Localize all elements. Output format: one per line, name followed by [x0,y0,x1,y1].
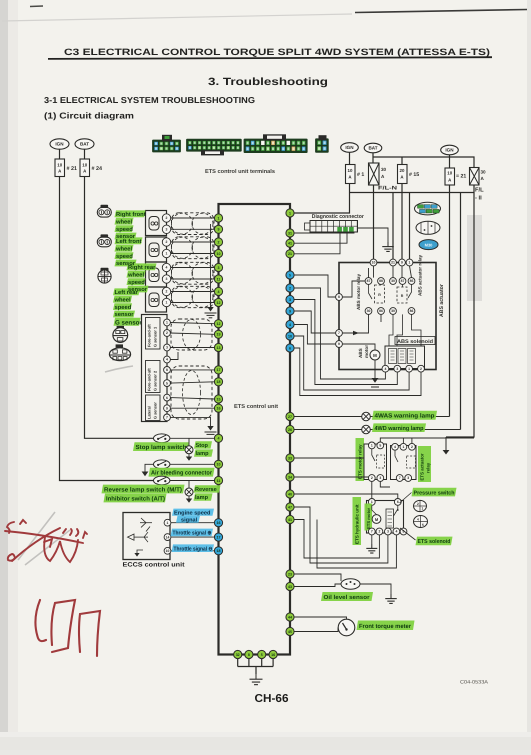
top scan line [355,10,527,13]
G sensor shield 1 [171,319,212,350]
svg-text:ETS control unit: ETS control unit [234,403,278,410]
ABS actuator box [339,263,436,370]
svg-text:11: 11 [217,277,221,281]
svg-text:3: 3 [166,228,168,232]
svg-text:21: 21 [391,261,395,265]
svg-text:20: 20 [400,168,405,173]
svg-text:10: 10 [217,252,221,256]
svg-text:2: 2 [411,445,413,449]
G sensor connector icon 2 [116,344,123,347]
G sensor shield 2 [171,366,212,419]
svg-text:lamp: lamp [196,450,210,457]
svg-text:3. Troubleshooting: 3. Troubleshooting [208,76,328,88]
pressure switch leader [400,493,412,504]
svg-text:9: 9 [338,342,340,346]
wire fuse #24 down to stop lamp switch [85,177,154,439]
svg-text:88: 88 [379,279,383,283]
svg-text:# 15: # 15 [409,172,419,178]
ECCS control unit box [123,513,170,560]
wire: F/L-N down to ABS relay pin [373,185,375,263]
left terminal 16 engine speed (blue) [214,519,222,527]
svg-text:3: 3 [379,476,381,480]
svg-text:R: R [401,294,404,298]
ETS control unit connector strip 3 [244,139,308,153]
svg-text:wheel: wheel [127,271,144,278]
svg-text:10: 10 [372,261,376,265]
ETS solenoid leader [400,528,416,540]
svg-text:C3 ELECTRICAL CONTROL TORQUE S: C3 ELECTRICAL CONTROL TORQUE SPLIT 4WD S… [64,47,490,57]
diag connector ground [358,228,389,242]
wire: right column x460 to 4WD lamp line [460,193,462,430]
svg-text:45: 45 [288,630,292,634]
fuse 10A #21 right [445,168,455,185]
diagnostic connector grid [305,223,311,230]
svg-text:ABS actuator relay: ABS actuator relay [418,254,423,296]
shield drain ground [207,307,213,312]
left front sensor connector icon [101,234,109,238]
right front shield (twisted pair) [172,213,215,235]
svg-text:19: 19 [217,333,221,337]
wire: fuse #1 to bus [349,184,351,193]
svg-text:ETS hydraulic unit: ETS hydraulic unit [355,504,360,544]
svg-text:speed: speed [128,279,145,286]
svg-text:2: 2 [166,290,168,294]
red handwriting group 2 [35,600,100,656]
svg-text:10: 10 [57,162,62,167]
left rear shield (twisted pair) [172,286,215,307]
svg-text:7: 7 [166,416,168,420]
svg-text:2: 2 [420,367,422,371]
left terminal 11 (reverse) [214,476,222,484]
wire: terminal 47 to solenoid pin [294,507,388,563]
stop lamp [185,446,193,454]
svg-text:speed: speed [116,253,133,260]
svg-text:13: 13 [217,346,221,350]
svg-text:3: 3 [396,367,398,371]
wire IGN to fuse #21 [59,149,61,159]
svg-text:1: 1 [422,507,424,511]
G sensor pins [164,319,171,326]
svg-text:3: 3 [407,476,409,480]
svg-text:ETS solenoid: ETS solenoid [418,538,452,545]
svg-text:21: 21 [288,252,292,256]
fuse 20A #15 [398,165,408,184]
left front shield (twisted pair) [172,237,215,259]
wire: terminal 2 to solenoid pin 4 [294,288,385,379]
svg-text:18: 18 [217,380,221,384]
svg-text:1: 1 [166,301,168,305]
wire: ECCS pin10 to terminal 18 [171,550,215,552]
svg-text:1: 1 [408,367,410,371]
right front sensor connector icon [101,205,109,209]
wire: bus drop to ABS relay pin d [409,193,411,263]
wire BAT to F/L-N [372,153,374,163]
label: ETS motor (green, rotated) [365,504,373,531]
svg-text:10: 10 [288,334,292,338]
svg-text:Stop: Stop [196,443,209,449]
svg-text:1: 1 [166,252,168,256]
svg-text:2: 2 [166,331,168,335]
label: throttle signal + (blue) [171,529,214,537]
wire: bus drop to ABS relay pin b [392,193,394,263]
wire: 4WAS lamp to IGN column [371,416,450,418]
wire BAT to fuse #24 [84,149,86,159]
solenoid pin 4 return wire [317,520,396,569]
svg-text:wheel: wheel [114,296,131,303]
svg-text:(1) Circuit diagram: (1) Circuit diagram [44,111,134,121]
left rear sensor wires to unit [171,291,215,293]
svg-text:ABS solenoid: ABS solenoid [397,339,433,345]
svg-text:16: 16 [217,407,221,411]
wire IGN1 to fuse #1 [349,152,351,164]
svg-text:2: 2 [166,216,168,220]
svg-text:Pressure switch: Pressure switch [414,489,456,496]
left rear sensor pins [162,287,170,295]
svg-text:26: 26 [288,428,292,432]
ETS motor M [372,515,381,524]
right front sensor pins [162,214,170,222]
svg-text:lamp: lamp [195,494,209,501]
ETS control unit box [219,204,291,655]
svg-text:R: R [378,293,381,297]
svg-text:Throttle signal ⊕: Throttle signal ⊕ [173,530,212,537]
svg-text:44: 44 [288,615,292,619]
svg-text:7: 7 [338,331,340,335]
svg-text:3-1 ELECTRICAL SYSTEM TROUBLES: 3-1 ELECTRICAL SYSTEM TROUBLESHOOTING [44,95,255,105]
svg-text:17: 17 [217,368,221,372]
svg-text:41: 41 [288,242,292,246]
svg-text:Reverse lamp switch (M/T): Reverse lamp switch (M/T) [104,486,182,493]
label: ETS motor relay (green, rotated) [356,438,365,481]
svg-text:4: 4 [289,323,291,327]
svg-text:IGN: IGN [345,145,354,150]
svg-text:Left front: Left front [116,238,142,245]
right rear sensor pins [162,263,170,271]
wire: bus drop to terminal 1 of control unit [294,193,349,214]
svg-text:# 21: # 21 [67,166,78,172]
wire: F/L-II column down to ETS relay feed [446,185,474,437]
wire: terminal 27 to 4WAS lamp [294,416,361,418]
left terminal 18 throttle- (blue) [214,547,222,555]
svg-text:11: 11 [217,479,221,483]
svg-text:2: 2 [371,476,373,480]
svg-text:# 24: # 24 [92,166,103,172]
svg-text:31: 31 [288,231,292,235]
left front sensor wires to unit [171,241,215,243]
svg-text:= 21: = 21 [456,174,466,180]
svg-text:Fore-and-aft: Fore-and-aft [147,324,152,347]
label: ETS actuator relay (green, rotated) [418,446,431,482]
label: stop lamp [194,441,212,448]
svg-text:1: 1 [289,211,291,215]
wire: edge pin 8 to ABS motor relay coil [342,281,365,297]
svg-text:4WAS warning lamp: 4WAS warning lamp [375,413,435,420]
svg-text:5: 5 [261,653,263,657]
svg-text:Diagnostic connector: Diagnostic connector [312,214,365,220]
ETS control unit right terminals [286,209,294,217]
right rear wheel speed sensor [146,262,167,287]
svg-text:relay: relay [426,462,431,473]
label: ETS solenoid [416,537,453,546]
label: air bleeding connector [149,468,215,477]
svg-text:BAT: BAT [368,146,377,151]
svg-text:speed: speed [116,226,133,233]
svg-text:IGN: IGN [445,148,454,153]
svg-text:ETS motor: ETS motor [366,507,371,529]
svg-text:8: 8 [248,653,250,657]
wire: terminal 10 to solenoid pin 1 [294,336,409,390]
label: front torque meter [357,621,415,631]
ABS solenoid box [385,346,425,369]
svg-text:6: 6 [397,500,399,504]
reverse lamp branch [188,481,190,488]
right rear sensor wires to unit [171,267,215,269]
ETS control unit bottom terminals 32/8/5/16 [234,650,242,658]
svg-text:12: 12 [217,301,221,305]
label: 4WAS warning lamp [372,411,437,420]
wire: terminal 9 to ABS edge pin 7 [294,311,336,333]
svg-text:30: 30 [391,279,395,283]
svg-text:30: 30 [391,309,395,313]
svg-text:12: 12 [217,322,221,326]
svg-text:2: 2 [417,502,419,506]
ABS motor relay contacts/coil [365,278,372,285]
G sensor pin4 stub [170,352,178,360]
svg-text:Stop lamp switch: Stop lamp switch [136,444,187,451]
fusible link 30A F/L-N [369,163,380,185]
svg-text:47: 47 [288,505,292,509]
label: stop lamp switch [133,442,189,451]
svg-text:G sensor 2: G sensor 2 [153,370,158,391]
svg-text:5: 5 [379,444,381,448]
wire: terminal 3 to solenoid pin 3 [294,300,397,385]
svg-text:Lateral: Lateral [147,406,152,419]
svg-text:3: 3 [218,266,220,270]
svg-text:4: 4 [218,437,220,441]
svg-text:5: 5 [422,523,424,527]
svg-text:40: 40 [288,492,292,496]
wire: terminal 33 to ETS motor relay [294,457,364,459]
red handwriting group 1 [5,520,87,562]
left rear wheel speed sensor [146,287,167,312]
reverse lamp switch symbol [154,476,170,485]
front torque meter symbol [338,619,355,636]
wire: terminal 23 [294,574,341,581]
fore-and-aft G sensor 1 box [146,318,161,350]
svg-text:1: 1 [166,321,168,325]
svg-text:signal: signal [181,516,198,523]
lower power bus y192.5 [350,192,475,194]
wire IGN2 to fuse #21 right [449,155,451,168]
svg-text:Right front: Right front [116,211,146,218]
svg-text:1: 1 [167,521,169,525]
svg-text:5: 5 [289,273,291,277]
lateral G sensor box [146,395,161,421]
svg-text:6: 6 [166,396,168,400]
ground arrow of ETS relay feed [445,437,447,450]
4WD warning lamp [362,425,371,434]
svg-text:9: 9 [289,309,291,313]
right front wheel speed sensor [146,211,167,236]
ABS relay-to-solenoid wires [389,314,393,346]
svg-text:7: 7 [399,476,401,480]
svg-text:30: 30 [381,167,387,172]
wire: terminal 41b to solenoid pin [294,520,379,559]
diag connector wires to terminals 31/41/21 [294,232,354,233]
wire: right column x449 to 4WAS lamp line [449,185,451,417]
svg-text:ABS motor relay: ABS motor relay [356,274,361,310]
svg-text:4: 4 [394,445,396,449]
fusible link 30A F/L-II [470,168,480,186]
G sensor pin7 wire to ground [170,417,210,426]
svg-text:C04-0533A: C04-0533A [460,680,489,686]
ETS control unit left terminals (sensor inputs) [214,214,222,222]
label: pressure switch [412,488,457,497]
svg-text:8: 8 [338,295,340,299]
label: G sensor [114,318,141,326]
fuse 10A #24 [80,159,90,177]
label: 4WD warning lamp [372,423,426,432]
svg-text:85: 85 [410,279,414,283]
G sensor assembly box [142,315,168,422]
G sensor wires to unit [170,323,214,324]
connector icon oval C (blue) [419,240,438,250]
svg-text:ETS motor relay: ETS motor relay [358,444,363,479]
wire: terminal 26 to 4WD lamp [294,429,361,431]
svg-text:10: 10 [166,549,170,553]
svg-text:4: 4 [218,290,220,294]
motor ground below box [374,360,376,378]
svg-text:wheel: wheel [115,218,132,225]
ABS box left-edge pins [336,294,343,301]
svg-text:Front torque meter: Front torque meter [359,623,412,630]
fuse 10A #21 [55,159,65,177]
svg-text:10: 10 [217,463,221,467]
ETS actuator relay box [391,446,417,480]
svg-text:3: 3 [166,346,168,350]
svg-text:F/L-N: F/L-N [378,185,397,191]
wire: ECCS pin14 to terminal 17 [171,536,215,538]
svg-text:9: 9 [401,261,403,265]
connector icon oval A [415,202,441,215]
ABS solenoid bottom pins [382,365,389,372]
svg-text:motor: motor [364,345,369,358]
svg-text:ETS actuator: ETS actuator [420,453,425,480]
svg-text:5: 5 [166,381,168,385]
wire: terminal 5 to ABS edge pin 8 [294,275,336,297]
left terminal 4 (stop lamp) [214,434,222,442]
shield drain wire down to ground [210,224,212,307]
title underline [48,57,492,59]
svg-text:Reverse: Reverse [195,487,217,493]
svg-text:sensor: sensor [115,312,135,318]
ECCS pins [164,519,171,526]
bottom ground collector wires [237,659,239,667]
svg-text:IGN: IGN [55,142,64,147]
fore-and-aft G sensor 2 box [146,361,161,393]
power source BAT (left) [75,139,94,149]
svg-text:F/L: F/L [475,187,484,194]
svg-text:30: 30 [481,170,487,175]
wire fuse #21 down to reverse lamp switch [60,177,154,481]
right rear sensor connector icon [101,268,109,272]
svg-text:4: 4 [417,518,419,522]
svg-text:16: 16 [271,653,275,657]
wire: terminal 40 to pressure switch [294,494,398,499]
ETS connector icon 2 [414,516,428,528]
wire: edge pin 7 to relay contact, with arrow [342,314,368,333]
svg-text:87: 87 [367,279,371,283]
faint grey scan band right of ABS actuator [467,215,482,301]
svg-text:Throttle signal ⊖: Throttle signal ⊖ [174,545,213,552]
svg-text:10: 10 [348,168,353,173]
label: reverse lamp [194,485,221,492]
label: throttle signal - (blue) [172,544,215,552]
ETS motor relay box [364,444,387,480]
svg-text:32: 32 [236,653,240,657]
svg-text:Air bleeding connector: Air bleeding connector [151,470,213,477]
svg-text:Right rear: Right rear [128,264,156,271]
svg-text:CH-66: CH-66 [255,693,289,705]
svg-text:1: 1 [371,444,373,448]
left terminal 10 (air bleeding) [214,460,222,468]
wire: air bleeding connector to terminal 10 [170,463,214,465]
svg-text:6: 6 [289,346,291,350]
left terminal 17 throttle+ (blue) [214,533,222,541]
svg-text:2: 2 [218,240,220,244]
wire: air bleeding connector to ground arrow [145,464,154,471]
svg-text:ABS actuator: ABS actuator [439,284,445,317]
svg-text:34: 34 [288,475,292,479]
svg-text:9: 9 [218,228,220,232]
label: ABS solenoid [395,337,435,345]
oil level sensor symbol [341,579,360,589]
power source BAT (right) [364,143,382,153]
ABS actuator relay contacts/coil [390,278,397,285]
svg-text:18: 18 [217,549,221,553]
wire: ECCS pin1 to terminal 16 [171,522,215,524]
svg-text:ETS control unit terminals: ETS control unit terminals [205,168,275,175]
svg-text:87: 87 [401,279,405,283]
ABS relay top pins [370,259,377,266]
svg-text:4WD warning lamp: 4WD warning lamp [375,425,424,432]
4WAS warning lamp [362,412,371,421]
svg-text:1: 1 [409,261,411,265]
ECCS internal ground [137,550,143,553]
hydraulic unit motor ground [371,535,373,544]
wire: terminal 34 to ETS relay pins [294,476,368,478]
wire: 20A down to ABS relay pin [401,184,403,263]
svg-text:4: 4 [166,358,168,362]
wire: oil sensor to ground [360,584,391,594]
ECCS transistor symbols [140,522,152,524]
top-left scan dash [30,5,43,8]
svg-text:3: 3 [387,530,389,534]
svg-text:1: 1 [402,445,404,449]
left front sensor pins [162,238,170,246]
svg-text:# 1: # 1 [357,172,364,178]
svg-text:17: 17 [217,535,221,539]
svg-text:4: 4 [384,367,386,371]
power source IGN (right 2) [441,145,459,155]
wire: terminal 4 to ABS edge pin 9 [294,325,336,345]
ETS relay top feed wires [380,438,474,442]
wire: edge pin 9 to ABS motor [342,344,375,350]
svg-text:1: 1 [218,216,220,220]
svg-text:30: 30 [367,309,371,313]
label: reverse lamp switch [102,485,185,494]
connector icon oval B [416,221,440,234]
